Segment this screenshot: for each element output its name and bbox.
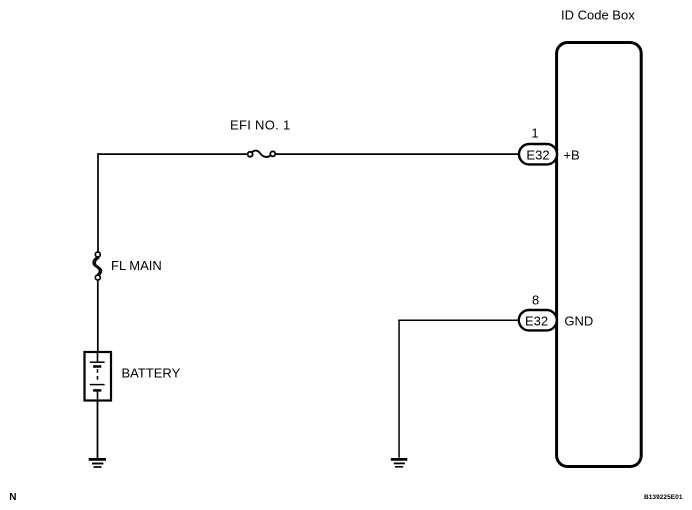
svg-text:+B: +B (563, 148, 579, 163)
wire: top horizontal from corner to fuse (97, 153, 247, 155)
wire: vertical from fusible link to battery (97, 280, 99, 352)
svg-text:1: 1 (531, 126, 538, 141)
wire: left vertical from corner to fusible link (97, 153, 99, 252)
ground: battery ground (89, 459, 106, 467)
svg-text:N: N (9, 492, 16, 503)
connector E32 pin 1 (519, 144, 557, 164)
wire: GND vertical down to ground (398, 320, 400, 458)
ID Code Box outline (557, 43, 642, 467)
svg-text:ID Code Box: ID Code Box (561, 7, 635, 22)
svg-text:B139225E01: B139225E01 (644, 494, 683, 501)
wire: top horizontal from fuse to connector E32 pin 1 (275, 153, 519, 155)
svg-text:E32: E32 (525, 313, 548, 328)
svg-text:FL MAIN: FL MAIN (111, 258, 162, 273)
svg-text:E32: E32 (526, 147, 549, 162)
fusible link FL MAIN (93, 252, 101, 280)
wire: GND horizontal from ground stub to connector E32 pin 8 (398, 319, 517, 321)
svg-text:GND: GND (564, 313, 593, 328)
svg-text:BATTERY: BATTERY (122, 366, 181, 381)
connector E32 pin 8 (519, 310, 557, 330)
fuse EFI NO. 1 (248, 151, 276, 157)
ground: GND ground (391, 459, 408, 466)
svg-text:8: 8 (532, 293, 539, 308)
wire: battery to ground (97, 401, 99, 459)
svg-text:EFI NO. 1: EFI NO. 1 (230, 117, 291, 132)
battery BATTERY (85, 352, 112, 401)
